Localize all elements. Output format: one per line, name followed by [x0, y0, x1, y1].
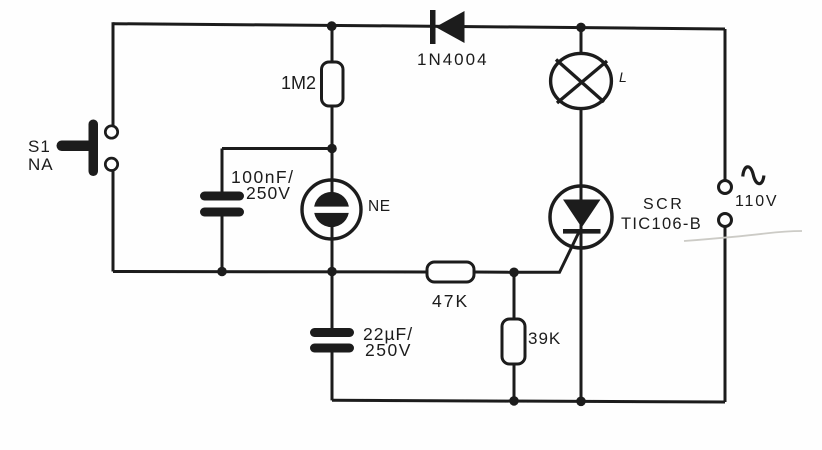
- svg-text:47K: 47K: [432, 291, 469, 311]
- svg-text:SCR: SCR: [643, 196, 684, 213]
- svg-text:110V: 110V: [735, 193, 778, 210]
- svg-text:TIC106-B: TIC106-B: [621, 215, 702, 233]
- svg-text:L: L: [619, 69, 627, 85]
- svg-text:1N4004: 1N4004: [417, 50, 489, 69]
- svg-text:39K: 39K: [528, 329, 561, 348]
- svg-text:NE: NE: [368, 198, 391, 215]
- svg-text:250V: 250V: [246, 183, 291, 203]
- svg-text:1M2: 1M2: [281, 73, 316, 93]
- svg-text:S1: S1: [28, 137, 51, 156]
- svg-text:NA: NA: [28, 155, 54, 174]
- svg-text:250V: 250V: [365, 340, 412, 360]
